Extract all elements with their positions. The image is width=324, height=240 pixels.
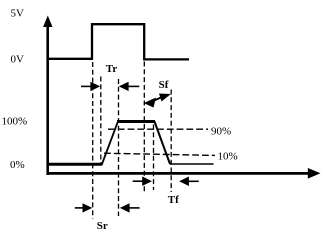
svg-text:0%: 0% bbox=[10, 159, 25, 171]
svg-text:Tr: Tr bbox=[106, 63, 118, 75]
svg-text:0V: 0V bbox=[11, 54, 25, 66]
svg-text:10%: 10% bbox=[218, 151, 238, 163]
svg-text:Tf: Tf bbox=[168, 194, 179, 206]
svg-text:Sr: Sr bbox=[97, 220, 108, 232]
svg-text:5V: 5V bbox=[11, 8, 25, 20]
svg-text:100%: 100% bbox=[2, 116, 28, 128]
svg-text:Sf: Sf bbox=[159, 79, 169, 91]
svg-text:90%: 90% bbox=[211, 126, 231, 138]
